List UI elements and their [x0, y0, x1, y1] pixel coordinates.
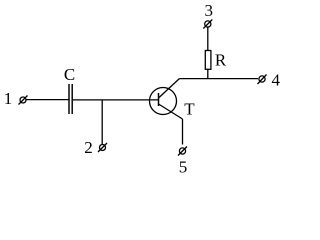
svg-text:3: 3: [205, 1, 214, 20]
svg-text:2: 2: [84, 138, 93, 157]
svg-text:R: R: [215, 51, 227, 70]
svg-text:T: T: [184, 99, 195, 118]
svg-text:C: C: [64, 65, 75, 84]
svg-text:5: 5: [179, 158, 188, 177]
svg-text:1: 1: [4, 89, 13, 108]
svg-text:4: 4: [272, 71, 281, 90]
